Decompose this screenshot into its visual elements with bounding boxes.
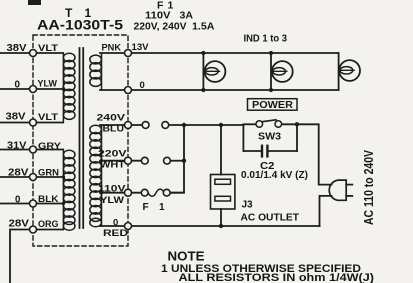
svg-text:F: F — [143, 202, 149, 213]
svg-text:1: 1 — [159, 202, 165, 213]
label 240V BLU — [97, 113, 126, 135]
svg-text:GRY: GRY — [38, 141, 62, 152]
terminal 0 right — [125, 87, 132, 94]
terminal 0 RED — [125, 223, 132, 230]
connector pin 220V a — [141, 157, 148, 164]
wire left tap 38V bottom — [0, 122, 63, 124]
label POWER — [252, 99, 293, 111]
wire to plug top — [297, 124, 332, 184]
connector pin 240V a — [142, 122, 149, 129]
svg-text:BLU: BLU — [103, 124, 125, 135]
terminal 240V BLU — [125, 122, 132, 129]
svg-text:POWER: POWER — [252, 99, 293, 111]
winding primary upper-left (38V/0/38V) — [63, 53, 75, 123]
AC plug body — [329, 180, 352, 200]
label 110V YLW — [98, 184, 126, 207]
svg-text:0: 0 — [15, 195, 21, 206]
svg-text:220V, 240V: 220V, 240V — [134, 21, 187, 33]
terminal 28V GRN — [30, 174, 37, 181]
svg-text:0: 0 — [140, 80, 145, 91]
note line 3 cropped — [185, 282, 375, 283]
svg-text:0: 0 — [15, 80, 21, 91]
lamp IND3 — [339, 60, 360, 81]
svg-text:YLW: YLW — [100, 195, 124, 206]
wire lamp branch IND3 — [338, 53, 340, 90]
connector pin 110V b — [163, 189, 170, 196]
transformer T1 dashed enclosure — [33, 35, 128, 246]
svg-text:BLK: BLK — [38, 194, 59, 205]
svg-text:AC OUTLET: AC OUTLET — [241, 213, 300, 224]
label 38V VLT top — [7, 43, 59, 54]
note line 1 — [161, 263, 361, 275]
label 31V GRY — [7, 141, 62, 153]
winding primary lower-left (31V/28V/0/28V) — [63, 150, 75, 231]
connector pin 240V b — [162, 122, 169, 129]
label 0 right top — [140, 80, 145, 91]
svg-text:220V: 220V — [98, 149, 127, 160]
wire left tap 28V ORG with drop — [10, 230, 63, 283]
label IND 1 to 3 — [244, 34, 288, 45]
lamp IND1 — [204, 61, 225, 82]
label 38V VLT bottom — [6, 112, 59, 124]
connector pin 110V a — [141, 189, 148, 196]
svg-text:28V: 28V — [9, 219, 30, 230]
label F1 ratings — [134, 0, 215, 33]
label C2 value — [241, 170, 308, 181]
svg-text:AC 110 to 240V: AC 110 to 240V — [362, 149, 376, 225]
terminal 31V GRY — [30, 146, 37, 153]
wire 0 from winding to lamps — [100, 89, 339, 91]
svg-text:SW3: SW3 — [258, 132, 281, 143]
svg-text:110V: 110V — [98, 184, 126, 195]
wire left tap 31V GRY — [0, 149, 63, 151]
connector pin 220V b — [164, 157, 171, 164]
svg-text:0: 0 — [113, 218, 118, 229]
label SW3 — [258, 132, 281, 143]
label PNK 13V — [102, 42, 150, 54]
note line 2 — [179, 272, 375, 283]
svg-text:31V: 31V — [7, 141, 27, 152]
label 28V ORG — [9, 219, 59, 231]
svg-text:J3: J3 — [242, 200, 254, 211]
wire to plug bottom — [320, 196, 332, 226]
wire lamp branch IND2 — [270, 53, 272, 90]
wire 240V tap row — [100, 124, 243, 126]
svg-text:YLW: YLW — [38, 79, 57, 90]
label AC OUTLET — [241, 213, 300, 224]
label 0 RED — [103, 218, 128, 240]
svg-text:VLT: VLT — [38, 112, 58, 123]
AC outlet J3 — [211, 175, 235, 210]
terminal 38V top — [30, 50, 37, 57]
svg-text:WHT: WHT — [100, 160, 125, 171]
fuse F1 element — [148, 189, 164, 196]
label J3 — [242, 200, 254, 211]
svg-text:13V: 13V — [132, 42, 150, 53]
capacitor C2 — [243, 146, 297, 157]
page mark top-left — [28, 0, 41, 5]
winding secondary lower-right (240/220/110/0) — [90, 125, 102, 227]
svg-text:1.5A: 1.5A — [192, 21, 215, 33]
terminal 28V ORG — [30, 226, 37, 233]
wire 13V from winding to lamps — [100, 52, 339, 54]
wire lamp branch IND1 — [202, 53, 204, 90]
svg-text:GRN: GRN — [38, 168, 59, 179]
svg-text:38V: 38V — [6, 112, 27, 123]
lamp IND2 — [272, 61, 293, 82]
wire left tap 38V top — [0, 52, 63, 54]
label C2 — [260, 161, 275, 172]
transformer T1 core — [80, 48, 84, 228]
wire 110V tap row — [100, 192, 184, 194]
wire left tap 0 BLK — [0, 203, 64, 205]
svg-text:28V: 28V — [8, 168, 29, 179]
svg-text:AA-1030T-5: AA-1030T-5 — [37, 17, 123, 33]
wire selector bus — [170, 125, 184, 193]
terminal 220V WHT — [125, 157, 132, 164]
svg-text:ORG: ORG — [38, 219, 59, 230]
svg-text:0.01/1.4 kV (Z): 0.01/1.4 kV (Z) — [241, 170, 308, 181]
label 0 BLK — [15, 194, 59, 206]
label NOTE — [168, 250, 205, 264]
wire 220V tap row — [100, 160, 184, 162]
winding secondary upper-right (PNK 13V/0) — [90, 53, 102, 90]
terminal 0 BLK — [30, 200, 37, 207]
terminal 38V bottom — [30, 119, 37, 126]
svg-text:NOTE: NOTE — [168, 250, 205, 264]
label AA-1030T-5 — [37, 17, 123, 33]
terminal 0 YLW — [30, 86, 37, 93]
label 0 YLW — [15, 79, 57, 91]
switch SW3 — [256, 120, 282, 127]
wire J3 bottom feed — [220, 209, 222, 226]
svg-text:IND 1 to 3: IND 1 to 3 — [244, 34, 288, 45]
svg-text:VLT: VLT — [38, 43, 58, 54]
wire J3 top feed — [220, 125, 222, 175]
label F1 fuse — [143, 202, 166, 213]
wire left tap 28V GRN — [0, 176, 64, 178]
svg-text:38V: 38V — [7, 43, 28, 54]
svg-text:240V: 240V — [97, 113, 126, 124]
switch SW3 wiring — [243, 124, 297, 151]
label AC 110 to 240V — [362, 149, 376, 225]
label 220V WHT — [98, 149, 127, 171]
terminal PNK 13V — [125, 50, 132, 57]
POWER label box — [248, 99, 298, 111]
wire 0 RED bottom row — [100, 225, 320, 227]
label T1 — [65, 6, 92, 20]
wire left tap 0 YLW — [0, 88, 64, 90]
svg-text:PNK: PNK — [102, 43, 122, 54]
svg-text:RED: RED — [103, 228, 128, 239]
label 28V GRN — [8, 168, 59, 179]
terminal 110V YLW — [125, 189, 132, 196]
